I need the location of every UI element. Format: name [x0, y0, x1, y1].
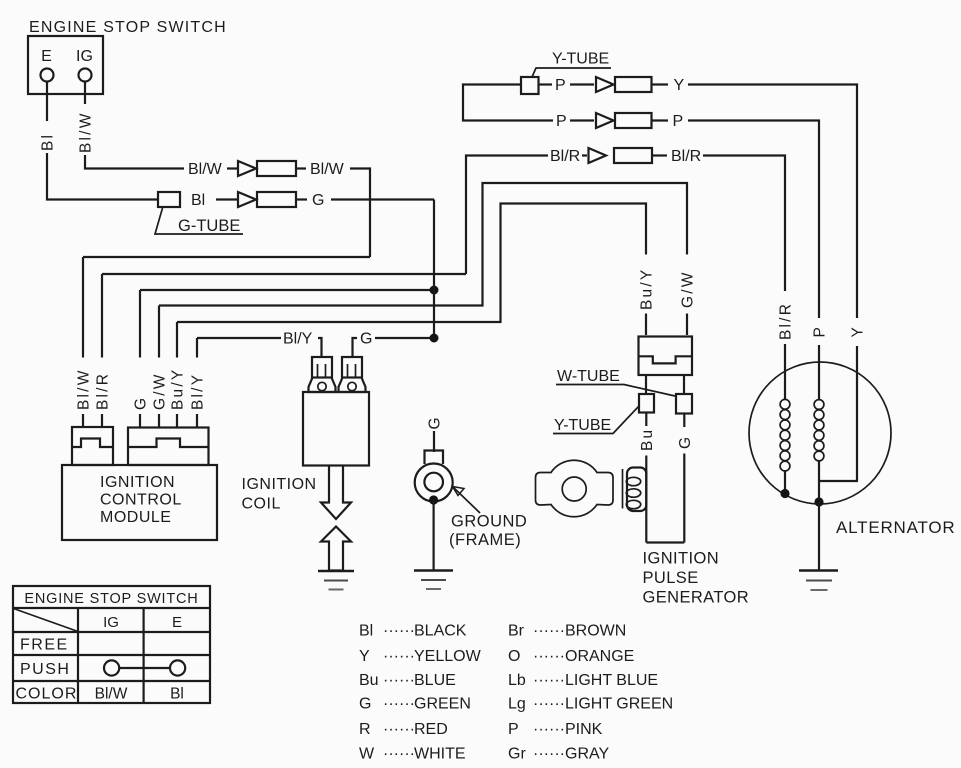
- svg-text:G: G: [312, 192, 324, 209]
- svg-text:······: ······: [533, 721, 565, 738]
- Y-TUBE underline and pointer: [532, 68, 611, 77]
- wire Bl/R left corner: [466, 156, 548, 275]
- svg-text:······: ······: [383, 672, 415, 689]
- svg-text:PULSE: PULSE: [643, 569, 699, 587]
- wire Y to P coil bottom: [819, 480, 858, 482]
- svg-text:······: ······: [383, 648, 415, 665]
- svg-text:G/W: G/W: [152, 372, 169, 410]
- wire Bu/Y lower: [645, 314, 647, 336]
- wire P to alternator: [688, 121, 819, 319]
- wire module pin Bl/R: [101, 274, 103, 358]
- wire Bu to sleeve: [645, 375, 647, 394]
- svg-text:Lb: Lb: [508, 672, 526, 689]
- svg-text:Bl: Bl: [191, 192, 205, 209]
- svg-text:Bl/W: Bl/W: [76, 368, 93, 410]
- svg-text:······: ······: [383, 623, 415, 640]
- svg-text:GENERATOR: GENERATOR: [643, 589, 750, 607]
- svg-text:Bl/R: Bl/R: [778, 302, 795, 340]
- wire module pin Bu/Y: [176, 322, 178, 358]
- ground alternator: [799, 571, 838, 591]
- svg-text:ENGINE STOP SWITCH: ENGINE STOP SWITCH: [24, 591, 198, 607]
- svg-text:Y-TUBE: Y-TUBE: [552, 51, 609, 68]
- wire pin Bl/W lower: [82, 414, 84, 427]
- G-TUBE pointer: [155, 208, 243, 234]
- coil terminal left: [309, 357, 336, 392]
- wire coil to frame dot: [784, 470, 786, 494]
- svg-text:YELLOW: YELLOW: [414, 648, 482, 665]
- svg-text:IG: IG: [76, 48, 93, 65]
- wire pin Bl/R lower: [101, 414, 103, 427]
- wire to ground: [433, 500, 435, 571]
- svg-text:PINK: PINK: [565, 721, 603, 738]
- ground frame pointer arrow: [453, 487, 481, 514]
- svg-text:Bl/Y: Bl/Y: [283, 331, 313, 348]
- svg-text:······: ······: [533, 696, 565, 713]
- ring terminal outer: [415, 464, 453, 502]
- W-TUBE sleeve right: [676, 394, 692, 414]
- svg-text:R: R: [359, 721, 371, 738]
- svg-text:Bl/W: Bl/W: [78, 111, 95, 153]
- wire: [570, 119, 594, 121]
- wire: [652, 154, 667, 156]
- svg-text:G: G: [427, 415, 444, 429]
- svg-text:Bl/W: Bl/W: [310, 161, 345, 178]
- svg-text:G: G: [677, 435, 694, 449]
- switch table: [13, 586, 210, 703]
- wire G to ground node: [331, 198, 434, 200]
- svg-text:E: E: [41, 48, 52, 65]
- svg-text:COIL: COIL: [242, 496, 281, 513]
- svg-text:ORANGE: ORANGE: [565, 648, 634, 665]
- wire E down (Bl): [46, 82, 48, 122]
- svg-text:······: ······: [533, 623, 565, 640]
- svg-text:BLACK: BLACK: [414, 623, 467, 640]
- wire IG down lower: [85, 155, 184, 169]
- svg-text:······: ······: [383, 721, 415, 738]
- connector arrow P-P: [596, 113, 614, 128]
- svg-text:Bu/Y: Bu/Y: [170, 368, 187, 410]
- wire Bl/Y bundle row: [197, 337, 281, 339]
- svg-text:G: G: [359, 696, 371, 713]
- svg-text:E: E: [172, 614, 182, 631]
- pickup coil: [623, 468, 647, 512]
- wire G coil branch: [353, 338, 358, 357]
- Y-TUBE sleeve left: [639, 394, 654, 413]
- wire Y lower: [856, 346, 858, 481]
- svg-text:IGNITION: IGNITION: [100, 474, 175, 491]
- wire left vertical joining P rows: [463, 85, 553, 121]
- wire P coil to ground dot: [818, 461, 820, 503]
- wire Y to alternator: [688, 85, 857, 319]
- wire G vertical to ground frame: [433, 200, 435, 339]
- connector arrow Bl/R: [589, 148, 607, 163]
- node alternator left dot: [780, 489, 789, 498]
- wire: [227, 167, 237, 169]
- svg-text:Y: Y: [359, 648, 370, 665]
- wire: [216, 198, 237, 200]
- svg-text:Bl/Y: Bl/Y: [190, 373, 207, 410]
- wire module pin G: [139, 290, 141, 358]
- svg-text:······: ······: [383, 746, 415, 763]
- svg-text:G-TUBE: G-TUBE: [178, 217, 240, 235]
- colour legend column 1: [359, 623, 482, 763]
- wire Bu below sleeve: [645, 413, 647, 427]
- W-TUBE underline pointer: [556, 385, 675, 397]
- svg-text:Gr: Gr: [508, 746, 526, 763]
- svg-text:G/W: G/W: [680, 270, 697, 308]
- wire: [570, 83, 594, 85]
- Y-TUBE sleeve: [521, 77, 539, 94]
- pulse rotor: [536, 460, 614, 517]
- spark gap arrow up: [321, 527, 351, 571]
- svg-text:W-TUBE: W-TUBE: [557, 368, 620, 385]
- wire module pin G/W: [158, 306, 160, 358]
- G-TUBE sleeve: [158, 192, 180, 207]
- svg-text:G: G: [360, 331, 372, 348]
- svg-text:LIGHT BLUE: LIGHT BLUE: [565, 672, 658, 689]
- spark gap arrow down: [321, 466, 351, 519]
- svg-text:Bl/R: Bl/R: [550, 148, 580, 165]
- svg-text:Y: Y: [850, 325, 867, 338]
- wire G to pulse generator: [683, 454, 685, 543]
- connector body P-Y: [615, 77, 652, 92]
- svg-text:COLOR: COLOR: [16, 686, 78, 703]
- connector arrow Bl-G: [238, 192, 256, 207]
- wire Bl/R bundle row: [102, 273, 466, 275]
- node G junction lower: [430, 334, 439, 343]
- svg-text:IG: IG: [103, 614, 119, 631]
- svg-text:Bl/W: Bl/W: [188, 161, 223, 178]
- svg-text:BROWN: BROWN: [565, 623, 626, 640]
- svg-text:P: P: [555, 77, 566, 94]
- connector body Bl/W: [257, 161, 296, 176]
- svg-text:PUSH: PUSH: [20, 661, 70, 678]
- wire: [296, 198, 307, 200]
- connector arrow Bl/W: [238, 161, 256, 176]
- wire module pin Bl/Y: [196, 338, 198, 358]
- svg-text:Bl/R: Bl/R: [671, 148, 701, 165]
- wire Bl/W bundle row: [83, 256, 370, 258]
- svg-text:Bu: Bu: [639, 428, 656, 451]
- Y-TUBE underline pointer: [553, 406, 639, 434]
- wire G below sleeve: [683, 414, 685, 428]
- module connector left: [72, 427, 113, 465]
- svg-text:BLUE: BLUE: [414, 672, 456, 689]
- connector body Bl-G: [257, 192, 296, 207]
- wire P lower: [818, 345, 820, 400]
- wire alternator to ground: [818, 502, 820, 571]
- ignition control module U1: [62, 465, 217, 540]
- svg-text:IGNITION: IGNITION: [242, 476, 317, 493]
- wire to corner: [350, 169, 370, 258]
- wire E down lower: [47, 153, 158, 200]
- terminal IG circle: [79, 69, 92, 82]
- ring terminal tab: [425, 451, 444, 465]
- svg-text:Bl: Bl: [40, 133, 57, 151]
- svg-text:GREEN: GREEN: [414, 696, 471, 713]
- wire: [652, 119, 669, 121]
- node G junction upper: [430, 286, 439, 295]
- wire: [296, 167, 306, 169]
- wire Bl/R to alternator: [703, 156, 785, 292]
- svg-text:GROUND: GROUND: [451, 513, 527, 531]
- wire pin G/W lower: [158, 414, 160, 428]
- svg-text:P: P: [508, 721, 519, 738]
- wire: [652, 83, 669, 85]
- ring terminal inner: [424, 473, 443, 492]
- ground frame symbol: [414, 571, 453, 590]
- wire: [582, 154, 587, 156]
- wire G/W bundle row: [159, 183, 687, 306]
- wire Bu/Y bundle row: [177, 204, 646, 323]
- wire G to sleeve: [683, 375, 685, 394]
- svg-text:P: P: [673, 113, 684, 130]
- wire module pin Bl/W: [82, 257, 84, 358]
- wire pin G lower: [139, 414, 141, 428]
- svg-text:······: ······: [533, 672, 565, 689]
- svg-text:WHITE: WHITE: [414, 746, 466, 763]
- svg-text:W: W: [359, 746, 375, 763]
- switch contact symbol: [104, 660, 185, 675]
- coil terminal right: [339, 357, 366, 392]
- wire Bl/R lower: [784, 344, 786, 400]
- wire pulse generator bottom: [646, 541, 684, 543]
- wire G branch to junction: [375, 337, 434, 339]
- wire G to ring terminal: [433, 431, 435, 452]
- svg-text:······: ······: [533, 746, 565, 763]
- wire IG down (Bl/W): [84, 82, 86, 105]
- svg-text:GRAY: GRAY: [565, 746, 609, 763]
- ignition pulse generator label: [643, 550, 750, 607]
- wire pin Bu/Y lower: [176, 414, 178, 428]
- node ground dot: [429, 495, 438, 504]
- svg-text:Lg: Lg: [508, 696, 526, 713]
- svg-text:P: P: [556, 113, 567, 130]
- alternator coil P: [814, 400, 824, 461]
- alternator coil Bl/R: [780, 399, 790, 471]
- terminal E circle: [41, 69, 54, 82]
- svg-text:RED: RED: [414, 721, 448, 738]
- engine stop switch box: [28, 36, 103, 94]
- wire: [539, 83, 553, 85]
- svg-text:(FRAME): (FRAME): [449, 531, 521, 549]
- W-TUBE connector block: [639, 337, 693, 376]
- svg-text:Bu/Y: Bu/Y: [639, 268, 656, 310]
- wire pin Bl/Y lower: [196, 414, 198, 428]
- svg-text:CONTROL: CONTROL: [100, 492, 182, 509]
- svg-text:LIGHT GREEN: LIGHT GREEN: [565, 696, 673, 713]
- colour legend column 2: [508, 623, 673, 763]
- connector body Bl/R: [614, 148, 652, 163]
- wire G bundle row: [140, 289, 434, 291]
- connector body P-P: [615, 113, 652, 128]
- ground under coil: [318, 571, 354, 590]
- svg-text:Y: Y: [674, 77, 685, 94]
- svg-text:ALTERNATOR: ALTERNATOR: [836, 518, 955, 537]
- connector arrow P-Y: [596, 77, 614, 92]
- svg-text:Bl: Bl: [359, 623, 373, 640]
- svg-text:Br: Br: [508, 623, 525, 640]
- svg-text:Bl/R: Bl/R: [95, 372, 112, 410]
- svg-text:Bl/W: Bl/W: [95, 686, 128, 703]
- svg-text:Bu: Bu: [359, 672, 379, 689]
- svg-text:FREE: FREE: [20, 637, 69, 654]
- svg-text:MODULE: MODULE: [100, 509, 171, 526]
- alternator housing circle: [749, 362, 891, 504]
- svg-text:······: ······: [533, 648, 565, 665]
- svg-text:IGNITION: IGNITION: [643, 550, 720, 568]
- svg-text:G: G: [133, 396, 150, 410]
- svg-text:Y-TUBE: Y-TUBE: [554, 417, 611, 434]
- svg-text:O: O: [508, 648, 520, 665]
- wire Bl/Y to coil terminal: [318, 338, 322, 357]
- wire G/W lower: [686, 314, 688, 336]
- svg-text:······: ······: [383, 696, 415, 713]
- wire Bu to pickup coil: [645, 456, 647, 543]
- svg-text:P: P: [812, 325, 829, 338]
- node alternator bottom dot: [814, 497, 823, 506]
- module connector right: [128, 428, 209, 466]
- svg-text:ENGINE STOP SWITCH: ENGINE STOP SWITCH: [29, 19, 227, 36]
- svg-text:Bl: Bl: [170, 686, 184, 703]
- ignition coil body: [303, 392, 369, 466]
